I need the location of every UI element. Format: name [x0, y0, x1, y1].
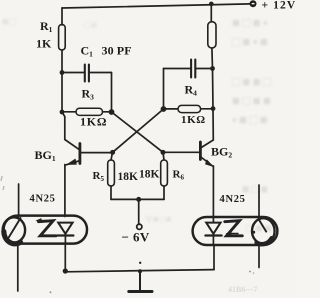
svg-text:18K: 18K [118, 171, 139, 183]
svg-text:− 6V: − 6V [122, 230, 150, 245]
svg-text:1K: 1K [36, 37, 52, 51]
svg-text:4N25: 4N25 [220, 194, 246, 205]
svg-text:18K: 18K [139, 169, 160, 181]
svg-text:1KΩ: 1KΩ [80, 115, 107, 129]
svg-text:+ 12V: + 12V [262, 0, 297, 12]
svg-text:30 PF: 30 PF [102, 44, 132, 58]
svg-text:1KΩ: 1KΩ [181, 114, 206, 126]
svg-text:4N25: 4N25 [30, 194, 56, 205]
